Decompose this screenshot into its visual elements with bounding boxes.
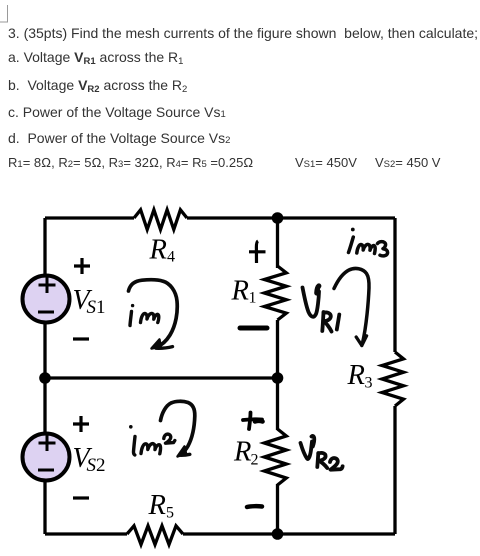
label VS2 bbox=[73, 443, 106, 476]
junction node middle bbox=[272, 372, 284, 384]
wire left lower bbox=[43, 480, 46, 534]
VS1 plus sign inside bbox=[38, 277, 56, 312]
label VS1 bbox=[73, 285, 106, 318]
minus sign below VS1 label bbox=[73, 337, 89, 340]
handwriting: mesh loop im3 bbox=[334, 268, 369, 345]
svg-text:1: 1 bbox=[249, 290, 257, 307]
plus sign above R1 bbox=[249, 250, 266, 253]
resistor R3 bbox=[382, 352, 404, 406]
wire R2 to bottom bbox=[276, 484, 279, 534]
wire left upper bbox=[43, 218, 46, 276]
wire middle top (node to R1) bbox=[276, 218, 279, 268]
svg-text:S: S bbox=[87, 297, 97, 318]
VS2 plus sign inside bbox=[38, 435, 56, 470]
wire right side lower bbox=[393, 406, 396, 534]
item b bbox=[8, 77, 187, 93]
plus sign above VS1 label bbox=[73, 241, 266, 498]
handwritten plus above R2 bbox=[243, 413, 263, 430]
svg-text:5: 5 bbox=[166, 505, 174, 522]
svg-text:3: 3 bbox=[365, 375, 373, 392]
wire R1 to middle node bbox=[276, 320, 279, 430]
svg-text:1: 1 bbox=[96, 297, 106, 318]
problem statement line 1 bbox=[8, 25, 478, 41]
resistor R4 bbox=[134, 210, 187, 230]
values line bbox=[8, 155, 253, 173]
VS1 minus sign inside bbox=[38, 311, 54, 314]
label R4 bbox=[149, 234, 176, 265]
handwriting: label VR1 bbox=[303, 286, 340, 332]
wire bottom left bbox=[45, 532, 127, 535]
plus sign above VS2 label bbox=[73, 416, 89, 432]
item c bbox=[8, 104, 226, 123]
svg-text:R: R bbox=[231, 276, 249, 307]
label R3 bbox=[347, 360, 373, 392]
VS2 minus sign inside bbox=[38, 469, 54, 472]
resistor R1 bbox=[264, 266, 286, 320]
wire bottom right bbox=[183, 532, 395, 535]
svg-text:S: S bbox=[87, 455, 97, 476]
minus sign below VS2 label bbox=[73, 496, 89, 499]
handwriting: mesh loop im1 bbox=[129, 280, 178, 349]
svg-text:R: R bbox=[347, 360, 365, 391]
handwriting: label VR2 bbox=[301, 436, 343, 470]
wire left between sources bbox=[43, 322, 46, 434]
handwritten minus below R2 bbox=[247, 504, 262, 509]
label R5 bbox=[148, 490, 175, 521]
svg-text:R: R bbox=[233, 436, 251, 467]
svg-text:R: R bbox=[148, 490, 166, 521]
label R2 bbox=[233, 436, 259, 468]
handwriting: label im2 bbox=[129, 425, 175, 455]
resistor R2 bbox=[264, 429, 286, 485]
item a bbox=[8, 49, 183, 65]
handwriting: mesh loop im2 bbox=[161, 401, 195, 456]
label R1 bbox=[231, 276, 257, 307]
wire middle horizontal bbox=[45, 376, 278, 379]
source values bbox=[295, 155, 357, 173]
item d bbox=[8, 130, 230, 149]
minus sign below R1 bbox=[240, 326, 267, 331]
handwriting: label im3 bbox=[349, 228, 388, 256]
junction node bottom of R2 branch bbox=[272, 528, 284, 540]
svg-text:2: 2 bbox=[96, 455, 106, 476]
voltage source VS2 bbox=[23, 434, 70, 481]
svg-text:2: 2 bbox=[251, 452, 259, 469]
svg-text:R: R bbox=[149, 234, 167, 265]
handwriting: label im1 bbox=[130, 304, 159, 326]
junction node at top of R1 branch bbox=[272, 212, 284, 224]
resistor R5 bbox=[127, 526, 183, 545]
wire right side upper bbox=[393, 218, 396, 352]
voltage source VS1 bbox=[23, 276, 70, 323]
junction node left middle bbox=[39, 372, 51, 384]
wire R4 to top-right corner bbox=[187, 216, 395, 219]
svg-text:4: 4 bbox=[167, 249, 175, 266]
wire top-left to R4 bbox=[45, 216, 134, 219]
